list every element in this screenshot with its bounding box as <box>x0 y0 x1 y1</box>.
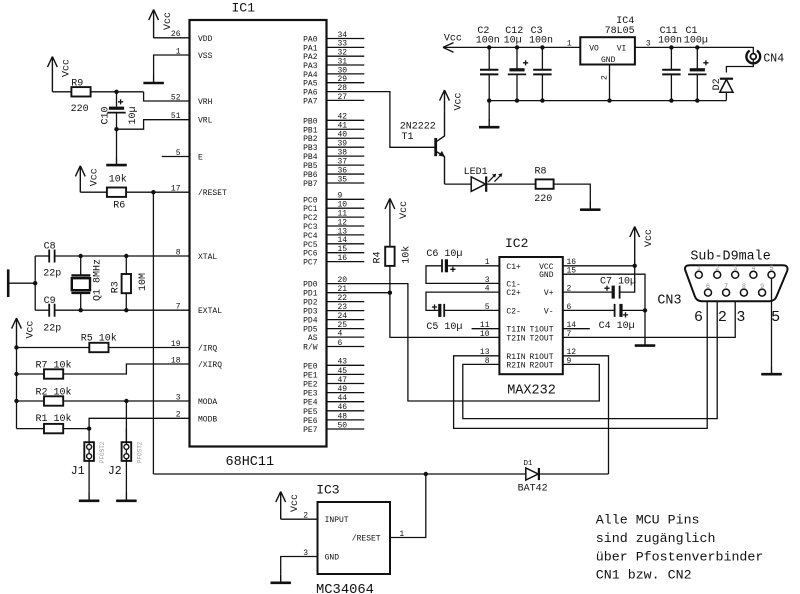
diode D2 <box>720 78 733 80</box>
wire Vcc to R6 <box>80 191 107 193</box>
wire D1 cathode <box>539 473 609 475</box>
svg-text:GND: GND <box>539 271 554 280</box>
wire R1OUT pin 12 to D1 <box>563 356 609 474</box>
capacitor C1 100µ <box>690 68 705 71</box>
wire C9 left to corner <box>35 309 49 311</box>
junction IC4 GND rail <box>607 98 611 102</box>
wire IC4 GND pin 2 <box>609 65 611 101</box>
Vcc left-arrow on 5V rail <box>443 43 454 53</box>
wire IC3 INPUT pin 2 <box>281 518 318 520</box>
resistor R9 <box>71 87 90 96</box>
crystal Q1 8MHz <box>71 274 90 276</box>
svg-text:2: 2 <box>718 309 727 326</box>
svg-text:C10: C10 <box>101 106 112 124</box>
svg-text:4: 4 <box>751 265 755 272</box>
wire VCC pin 16 <box>563 265 635 267</box>
junction rail R2 <box>14 399 18 403</box>
op-amp IC2 MAX232 body <box>499 257 562 374</box>
svg-text:C4 10µ: C4 10µ <box>599 321 635 332</box>
wire input rail right of IC4 <box>635 47 753 53</box>
svg-text:E: E <box>198 154 203 163</box>
svg-text:Q1 8MHz: Q1 8MHz <box>92 259 103 301</box>
svg-text:10µ: 10µ <box>128 106 139 124</box>
IC1 right pin stub wires <box>327 39 365 430</box>
wire MODB pin 2 <box>89 418 189 428</box>
wire 5V rail left of IC4 <box>443 46 580 48</box>
svg-text:D2: D2 <box>712 78 723 90</box>
wire C10 top <box>116 92 118 107</box>
wire C3 bottom stem <box>541 74 543 100</box>
wire C5 to C2- pin 5 <box>444 309 499 311</box>
svg-text:GND: GND <box>325 554 340 563</box>
svg-text:VRL: VRL <box>198 117 213 126</box>
wire VDD pin 26 <box>154 37 190 39</box>
wire R6 to /RESET pin 17 <box>126 191 189 193</box>
resistor R5 <box>89 343 108 352</box>
wire C2 top stem <box>488 47 490 69</box>
svg-text:100n: 100n <box>658 36 682 47</box>
wire CN4 to D2 <box>726 60 753 73</box>
svg-text:78L05: 78L05 <box>605 26 635 37</box>
svg-text:PD2: PD2 <box>303 299 318 308</box>
wire C12 top stem <box>516 47 518 69</box>
svg-text:INPUT: INPUT <box>325 516 349 525</box>
junction C3 bottom <box>540 98 544 102</box>
svg-text:MODB: MODB <box>198 415 217 424</box>
ground below R8 <box>580 202 600 210</box>
svg-text:3: 3 <box>736 309 745 326</box>
wire R3 bottom <box>125 293 127 310</box>
svg-text:Vcc: Vcc <box>62 59 73 77</box>
svg-text:C5 10µ: C5 10µ <box>426 322 462 333</box>
svg-text:CN4: CN4 <box>763 52 784 65</box>
svg-text:PC2: PC2 <box>303 214 318 223</box>
junction C11 top <box>669 45 673 49</box>
svg-text:PB7: PB7 <box>303 180 318 189</box>
svg-text:R2IN: R2IN <box>506 361 525 370</box>
capacitor C6 10u <box>441 259 443 272</box>
wire rail to R2 <box>17 400 45 402</box>
svg-text:VO: VO <box>589 45 599 54</box>
power Vcc symbol at R6 <box>75 166 85 192</box>
svg-text:/XIRQ: /XIRQ <box>198 361 222 370</box>
wire EXTAL pin 7 row <box>55 309 190 311</box>
wire C7 right to Vcc <box>620 266 635 292</box>
capacitor C4 10u <box>614 304 616 317</box>
svg-text:Vcc: Vcc <box>454 92 465 110</box>
svg-text:D1: D1 <box>524 460 534 468</box>
svg-text:5: 5 <box>771 309 780 326</box>
wire R5 to /IRQ pin 19 <box>108 347 189 349</box>
wire C11 bottom stem <box>670 74 672 100</box>
capacitor C5 10u <box>438 304 441 317</box>
svg-text:V-: V- <box>544 307 554 316</box>
svg-text:PA5: PA5 <box>303 80 318 89</box>
capacitor C12 10µ <box>509 68 524 71</box>
power Vcc symbol at R9 <box>48 57 58 92</box>
svg-text:VSS: VSS <box>198 52 213 61</box>
wire R1 to MODB junction <box>63 428 89 430</box>
svg-text:Vcc: Vcc <box>90 168 101 186</box>
connector J1 PFOST2 <box>84 442 94 461</box>
svg-text:R6: R6 <box>113 201 125 212</box>
junction C4/ground line <box>643 308 647 312</box>
svg-text:PE6: PE6 <box>303 417 318 426</box>
junction C12 bottom <box>515 98 519 102</box>
svg-text:10k: 10k <box>109 174 127 186</box>
junction C3 top <box>540 45 544 49</box>
svg-text:PD4: PD4 <box>303 317 318 326</box>
wire rail to R7 <box>17 373 45 375</box>
svg-text:PE1: PE1 <box>303 371 318 380</box>
wire crystal top <box>80 256 82 275</box>
svg-text:6: 6 <box>694 309 703 326</box>
wire crystal bottom <box>80 293 82 310</box>
svg-text:VRH: VRH <box>198 98 213 107</box>
svg-text:PC4: PC4 <box>303 232 318 241</box>
regulator IC4 78L05 body <box>580 37 635 64</box>
wire PD1 to T2IN pin 10 <box>390 293 500 338</box>
ground below J2 <box>116 493 136 501</box>
svg-text:C2-: C2- <box>506 307 520 316</box>
wire C10 to ground <box>116 129 118 157</box>
junction C2 top <box>487 45 491 49</box>
wire R2IN pin 8 from CN3 pin 2 <box>463 278 717 418</box>
svg-text:22p: 22p <box>43 269 61 280</box>
svg-text:PB1: PB1 <box>303 126 318 135</box>
svg-text:PC1: PC1 <box>303 205 318 214</box>
svg-text:VI: VI <box>617 45 627 54</box>
svg-text:PD3: PD3 <box>303 308 318 317</box>
resistor R7 <box>44 369 63 378</box>
wire R2 to MODA pin 3 <box>63 400 189 402</box>
junction EXTAL/R3 <box>124 308 128 312</box>
svg-text:PFOST2: PFOST2 <box>99 441 106 463</box>
junction MODA/J2 <box>124 399 128 403</box>
wire reset line to D1 <box>153 473 525 475</box>
wire C6 to C1- pin 3 <box>426 266 499 284</box>
svg-text:V+: V+ <box>544 289 554 298</box>
wire Vcc to R9 <box>52 91 71 93</box>
wire C2 bottom stem <box>488 74 490 100</box>
op-amp IC3 MC34064 body <box>318 502 391 574</box>
svg-text:Vcc: Vcc <box>290 494 301 512</box>
wire XTAL pin 8 row <box>55 255 190 257</box>
junction XTAL/Q1 <box>79 254 83 258</box>
capacitor C3 100n <box>533 69 551 71</box>
ground of power section <box>479 119 499 127</box>
wire IC3 /RESET pin 1 <box>390 474 426 538</box>
capacitor C10 polarized <box>109 107 124 110</box>
wire D2 to ground rail <box>725 92 727 100</box>
svg-text:R4: R4 <box>373 251 384 263</box>
junction C1 top <box>695 45 699 49</box>
ground of IC2 <box>635 337 655 345</box>
svg-text:PE2: PE2 <box>303 381 318 390</box>
svg-text:68HC11: 68HC11 <box>226 455 275 470</box>
svg-text:XTAL: XTAL <box>198 253 217 262</box>
wire ground rail <box>489 100 726 102</box>
junction node /RESET <box>151 190 155 194</box>
capacitor C8 22p <box>48 250 50 263</box>
wire C1 top stem <box>696 47 698 69</box>
svg-text:6: 6 <box>706 283 710 290</box>
wire PA6 pin 28 to T1 base <box>327 92 435 148</box>
svg-text:T1: T1 <box>402 132 414 143</box>
svg-text:PE0: PE0 <box>303 362 318 371</box>
wire R1IN pin 13 from CN3 pin 6 <box>454 296 708 428</box>
power Vcc symbol left rail <box>12 318 22 348</box>
C1 plus mark <box>703 60 708 65</box>
CN3 pin circles and tiny numbers <box>695 271 702 278</box>
svg-text:EXTAL: EXTAL <box>198 307 222 316</box>
power Vcc symbol at IC2 <box>630 227 640 266</box>
svg-text:T2OUT: T2OUT <box>529 334 553 343</box>
wire T1OUT pin 14 stub <box>563 328 590 330</box>
junction rail /IRQ <box>14 345 18 349</box>
ground below CN3 pin 5 <box>761 366 781 374</box>
wire C12 bottom stem <box>516 74 518 100</box>
wire to ground tap <box>8 282 35 284</box>
junction C2 bottom <box>487 98 491 102</box>
svg-text:C2+: C2+ <box>506 289 521 298</box>
svg-text:100n: 100n <box>476 36 500 47</box>
connector CN3 Sub-D9 outline <box>685 265 788 301</box>
ground below C10 <box>106 157 126 165</box>
junction C10/VRL <box>114 127 118 131</box>
wire T1 emitter to LED1 <box>445 183 472 185</box>
svg-text:IC1: IC1 <box>232 1 256 16</box>
junction C12 top <box>515 45 519 49</box>
capacitor C7 10u <box>612 286 615 299</box>
svg-text:T1OUT: T1OUT <box>529 326 553 335</box>
svg-text:Vcc: Vcc <box>26 320 37 338</box>
C10 plus mark <box>118 99 123 104</box>
junction C1 bottom <box>695 98 699 102</box>
svg-text:AS: AS <box>308 334 318 343</box>
svg-text:C1-: C1- <box>506 280 520 289</box>
svg-text:2: 2 <box>601 75 610 80</box>
svg-text:Vcc: Vcc <box>399 201 410 219</box>
svg-text:R8: R8 <box>535 167 547 178</box>
resistor R4 10k <box>385 247 394 266</box>
svg-text:PB0: PB0 <box>303 117 318 126</box>
op-amp IC1 68HC11 body <box>190 20 327 447</box>
wire rail to R5 <box>17 347 90 349</box>
svg-text:PFOST2: PFOST2 <box>136 441 143 463</box>
svg-text:IC2: IC2 <box>505 236 528 251</box>
wire VSS pin 1 to ground <box>154 55 190 75</box>
ground tap left of crystal <box>7 269 10 297</box>
wire R4 to PD1 <box>389 266 391 293</box>
svg-text:C1+: C1+ <box>506 263 521 272</box>
svg-text:3: 3 <box>646 39 651 48</box>
svg-text:C6 10µ: C6 10µ <box>426 249 462 260</box>
wire C8 left to corner <box>35 255 49 257</box>
resistor R2 <box>44 396 63 405</box>
svg-text:10M: 10M <box>138 273 149 291</box>
svg-text:C9: C9 <box>44 296 56 307</box>
junction XTAL/R3 <box>124 254 128 258</box>
wire C1 bottom stem <box>696 74 698 100</box>
capacitor C9 22p <box>48 304 50 317</box>
svg-text:PC7: PC7 <box>303 259 318 268</box>
svg-text:/IRQ: /IRQ <box>198 345 217 354</box>
svg-text:PA6: PA6 <box>303 89 318 98</box>
svg-text:BAT42: BAT42 <box>518 484 548 495</box>
power Vcc symbol at IC3 <box>276 492 286 520</box>
LED LED1 <box>471 177 485 192</box>
svg-text:9: 9 <box>760 283 764 290</box>
svg-text:PC6: PC6 <box>303 250 318 259</box>
wire J2 from MODA <box>125 401 127 442</box>
svg-text:PE3: PE3 <box>303 390 318 399</box>
junction R1/J1/MODB <box>87 426 91 430</box>
svg-text:GND: GND <box>601 56 616 65</box>
svg-text:PA2: PA2 <box>303 53 318 62</box>
svg-text:PA1: PA1 <box>303 44 318 53</box>
svg-text:100µ: 100µ <box>684 36 708 47</box>
svg-text:T2IN: T2IN <box>506 334 525 343</box>
wire C1+ pin 1 <box>446 265 499 267</box>
ground below IC3 <box>271 575 291 583</box>
svg-text:8: 8 <box>742 283 746 290</box>
svg-text:R9: R9 <box>71 79 83 90</box>
diode D1 BAT42 <box>526 468 538 480</box>
wire LED1 to R8 <box>486 183 535 185</box>
svg-text:PB6: PB6 <box>303 171 318 180</box>
svg-text:10: 10 <box>480 330 490 339</box>
power Vcc symbol at VDD <box>149 10 159 39</box>
svg-text:J1: J1 <box>71 465 85 478</box>
resistor R1 <box>44 424 63 433</box>
connector CN4 <box>750 54 756 60</box>
wire PD1 pin 21 <box>327 292 390 294</box>
junction VCC/C7 <box>633 264 637 268</box>
wire pin E stub <box>162 156 190 158</box>
svg-text:PB3: PB3 <box>303 144 318 153</box>
svg-text:10µ: 10µ <box>504 36 522 47</box>
junction IC3 reset <box>424 472 428 476</box>
svg-text:/RESET: /RESET <box>352 535 381 544</box>
svg-text:9: 9 <box>567 357 572 366</box>
wire R8 to ground <box>554 184 591 201</box>
svg-text:C7 10µ: C7 10µ <box>600 276 636 287</box>
transistor T1 2N2222 <box>434 138 437 156</box>
svg-text:Vcc: Vcc <box>444 34 462 45</box>
svg-text:PD0: PD0 <box>303 281 318 290</box>
ground at VSS <box>143 75 163 83</box>
wire IC3 GND pin 3 <box>281 557 318 575</box>
svg-text:1: 1 <box>697 265 701 272</box>
svg-text:PB4: PB4 <box>303 153 318 162</box>
wire T2OUT pin 7 to CN3 pin 3 <box>563 278 735 337</box>
wire R3 top <box>125 256 127 274</box>
svg-text:T1IN: T1IN <box>506 326 525 335</box>
svg-text:über Pfostenverbinder: über Pfostenverbinder <box>596 549 764 564</box>
junction rail R7 <box>14 372 18 376</box>
svg-text:3: 3 <box>733 265 737 272</box>
svg-text:PE5: PE5 <box>303 408 318 417</box>
svg-text:2: 2 <box>715 265 719 272</box>
resistor R6 <box>107 188 126 197</box>
svg-text:PE4: PE4 <box>303 399 318 408</box>
resistor R8 <box>536 179 554 188</box>
svg-text:J2: J2 <box>108 465 122 478</box>
svg-text:/RESET: /RESET <box>198 189 227 198</box>
svg-text:PE7: PE7 <box>303 426 318 435</box>
power Vcc symbol at T1 <box>440 90 450 110</box>
svg-text:PC5: PC5 <box>303 241 318 250</box>
junction EXTAL/Q1 <box>79 308 83 312</box>
svg-text:MAX232: MAX232 <box>507 384 556 399</box>
svg-text:Sub-D9male: Sub-D9male <box>690 250 770 265</box>
svg-text:5: 5 <box>770 265 774 272</box>
svg-text:VDD: VDD <box>198 35 213 44</box>
svg-text:MODA: MODA <box>198 398 217 407</box>
wire R9 to node VRH <box>91 91 144 93</box>
svg-text:R3: R3 <box>110 281 121 293</box>
svg-text:sind zugänglich: sind zugänglich <box>596 531 716 546</box>
svg-text:PC3: PC3 <box>303 223 318 232</box>
svg-text:PA7: PA7 <box>303 97 318 106</box>
capacitor C2 100n <box>480 69 498 71</box>
svg-text:220: 220 <box>534 194 552 205</box>
svg-text:220: 220 <box>71 104 89 115</box>
svg-text:Vcc: Vcc <box>644 229 655 247</box>
wire V- pin 6 to C4 <box>563 309 615 311</box>
svg-text:10k: 10k <box>401 246 413 264</box>
svg-text:2N2222: 2N2222 <box>400 121 436 132</box>
resistor R3 10M <box>122 274 131 293</box>
svg-text:CN1 bzw. CN2: CN1 bzw. CN2 <box>596 568 692 583</box>
wire left Vcc rail <box>16 348 18 429</box>
wire C2+ pin 4 to C5 <box>426 292 499 310</box>
svg-text:MC34064: MC34064 <box>316 583 374 594</box>
svg-text:PB2: PB2 <box>303 135 318 144</box>
C12 plus mark <box>523 60 528 65</box>
svg-text:C8: C8 <box>44 241 56 252</box>
svg-text:Vcc: Vcc <box>163 12 174 30</box>
svg-text:IC3: IC3 <box>316 482 339 497</box>
wire T1IN pin 11 stub <box>472 328 500 330</box>
wire ground stub power rail <box>488 101 490 119</box>
connector J2 PFOST2 <box>122 442 132 461</box>
svg-text:PA3: PA3 <box>303 62 318 71</box>
wire C10 bottom to node VRL <box>116 113 118 129</box>
junction R4/PD1 <box>388 291 392 295</box>
wire C11 top stem <box>670 47 672 69</box>
capacitor C11 100n <box>662 69 680 71</box>
svg-text:R/W: R/W <box>303 344 318 353</box>
svg-text:PA0: PA0 <box>303 36 318 45</box>
ground below J1 <box>79 493 99 501</box>
wire R7 to /XIRQ pin 18 <box>63 364 189 374</box>
wire GND pin 15 <box>563 274 645 337</box>
svg-text:22p: 22p <box>43 323 61 334</box>
svg-text:CN3: CN3 <box>657 294 681 309</box>
power Vcc symbol at R4 <box>385 198 395 247</box>
wire C4 to ground line <box>621 309 645 311</box>
svg-text:LED1: LED1 <box>464 167 488 178</box>
svg-text:PA4: PA4 <box>303 71 318 80</box>
svg-text:7: 7 <box>724 283 728 290</box>
svg-text:PD1: PD1 <box>303 290 318 299</box>
svg-text:1: 1 <box>567 39 572 48</box>
junction R9/C10/VRH <box>114 90 118 94</box>
wire C3 top stem <box>541 47 543 69</box>
wire left vertical C8/C9 <box>34 256 36 310</box>
